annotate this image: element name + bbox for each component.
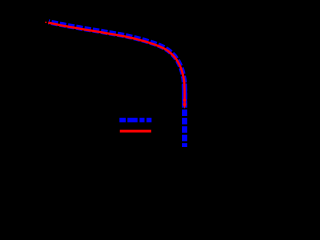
red start dot — [45, 22, 47, 24]
blue solid segment above arrow — [182, 84, 187, 108]
red solid curve — [48, 23, 184, 104]
blue dashed curve — [49, 22, 185, 147]
red wide spot on vertical — [183, 99, 186, 101]
red arrowhead at curve end — [183, 104, 187, 109]
legend blue dashed line — [119, 118, 151, 123]
legend red solid line — [120, 130, 151, 133]
plot background — [0, 0, 266, 186]
